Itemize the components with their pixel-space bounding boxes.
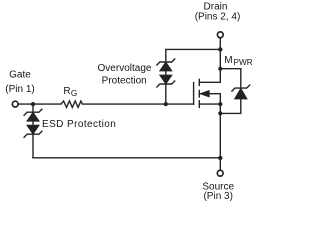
- svg-text:(Pins 2, 4): (Pins 2, 4): [195, 11, 241, 22]
- label Gate (Pin 1): [5, 70, 34, 96]
- label Drain (Pins 2, 4): [195, 1, 241, 22]
- wire: bottom source rail: [33, 157, 220, 159]
- source terminal circle: [217, 170, 223, 176]
- wire: clamp branch top: [220, 69, 241, 88]
- zener triangle (lower, apex down): [160, 75, 172, 84]
- wire: mid segment between zeners: [32, 121, 34, 125]
- channel segment (source): [198, 101, 200, 108]
- wire: clamp branch bottom: [220, 99, 241, 113]
- node: gate / ESD junction: [31, 102, 35, 106]
- svg-text:R: R: [63, 86, 70, 97]
- svg-text:M: M: [224, 55, 232, 66]
- channel segment (drain): [198, 79, 200, 85]
- zener triangle (upper, apex up): [160, 62, 172, 71]
- zener: drain-source clamp: [232, 85, 250, 99]
- label Source (Pin 3): [202, 181, 234, 202]
- svg-text:Overvoltage: Overvoltage: [98, 63, 152, 74]
- zener triangle (lower, apex down): [27, 125, 39, 134]
- wire: source stub: [199, 103, 220, 105]
- node: gate / overvoltage junction: [164, 102, 168, 106]
- wire: ESD clamp to bottom rail: [32, 134, 34, 158]
- wire: gate terminal to resistor: [19, 103, 61, 105]
- ESD protection zener pair: [24, 104, 42, 158]
- overvoltage protection zener pair: [157, 59, 175, 104]
- resistor RG: [61, 101, 82, 107]
- wire: resistor to MOSFET gate: [82, 103, 193, 105]
- drain terminal circle: [217, 32, 223, 38]
- node: drain junction: [218, 47, 222, 51]
- zener triangle (upper, apex up): [27, 112, 39, 121]
- wire: drain terminal lead: [219, 38, 221, 49]
- zener bar (cathode): [232, 85, 250, 91]
- channel segment (body): [198, 91, 200, 98]
- node: source / clamp junction: [218, 111, 222, 115]
- svg-text:(Pin 1): (Pin 1): [5, 84, 34, 95]
- node: source / bottom rail junction: [218, 156, 222, 160]
- svg-text:(Pin 3): (Pin 3): [203, 191, 232, 202]
- body arrow (points to channel): [200, 91, 209, 97]
- wire: body stub: [199, 94, 220, 104]
- label RG: [63, 86, 77, 98]
- label Overvoltage Protection: [98, 63, 152, 86]
- node: source stub junction: [218, 102, 222, 106]
- wire: drain stub: [199, 49, 220, 82]
- svg-text:G: G: [71, 89, 77, 98]
- svg-text:PWR: PWR: [234, 58, 253, 67]
- wire: top rail drain to overvoltage clamp: [166, 49, 221, 62]
- label ESD Protection: [42, 119, 116, 130]
- wire: source rail down: [219, 104, 221, 170]
- gate plate: [193, 83, 195, 105]
- gate terminal circle: [12, 101, 18, 107]
- svg-text:Gate: Gate: [9, 70, 31, 81]
- wire: gate junction to ESD clamp: [32, 104, 34, 112]
- zener bar (cathode, upper): [24, 109, 42, 115]
- node: drain / clamp branch junction: [218, 67, 222, 71]
- wire: clamp to gate line: [165, 84, 167, 104]
- zener bar (cathode, lower): [24, 131, 42, 137]
- svg-text:ESD Protection: ESD Protection: [42, 119, 116, 130]
- zener triangle (apex up): [235, 88, 248, 99]
- svg-text:Protection: Protection: [102, 76, 147, 87]
- zener bar (cathode, upper): [157, 59, 175, 65]
- zener bar (cathode, lower): [157, 81, 175, 87]
- label MPWR: [224, 55, 252, 67]
- transistor MPWR (power MOSFET): [194, 49, 223, 107]
- wire: mid segment between zeners: [165, 71, 167, 75]
